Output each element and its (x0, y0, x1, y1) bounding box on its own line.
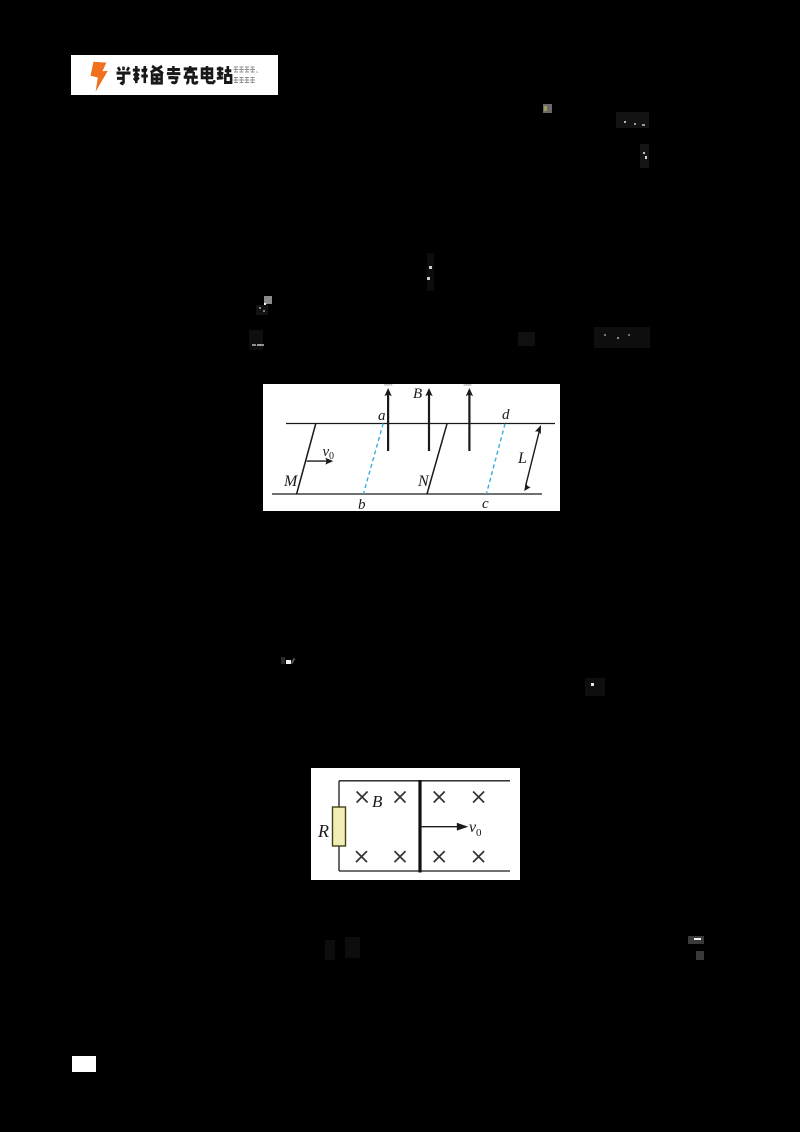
svg-text:d: d (502, 407, 510, 423)
svg-text:0: 0 (476, 827, 482, 839)
svg-text:c: c (482, 496, 489, 511)
svg-text:B: B (413, 386, 422, 402)
svg-text:M: M (283, 473, 299, 490)
svg-text:0: 0 (329, 451, 334, 462)
svg-text:R: R (317, 821, 329, 841)
svg-text:b: b (358, 497, 366, 511)
svg-text:N: N (417, 473, 430, 490)
svg-text:B: B (372, 792, 383, 811)
svg-text:a: a (378, 408, 386, 424)
svg-text:L: L (517, 450, 527, 467)
